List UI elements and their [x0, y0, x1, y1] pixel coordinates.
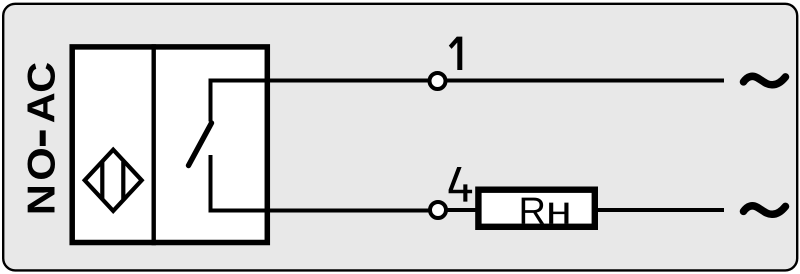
switch upper contact: [209, 79, 213, 122]
AC source symbol top: [744, 76, 786, 85]
wire resistor to AC: [598, 208, 724, 212]
wire top (switch to terminal 1): [211, 79, 433, 83]
resistor RH body: [478, 190, 594, 227]
proximity sensor symbol (diamond): [85, 150, 142, 211]
svg-text:AC: AC: [19, 62, 63, 124]
svg-text:R: R: [518, 191, 545, 233]
diamond inner line left: [100, 162, 104, 199]
pin label 4: [449, 167, 473, 202]
switch blade: [189, 123, 212, 166]
svg-text:н: н: [546, 189, 572, 233]
switch lower contact: [209, 155, 213, 211]
wire top right (terminal 1 to AC): [446, 79, 725, 83]
label NO-AC hyphen: [40, 130, 46, 146]
divider line: [151, 44, 155, 245]
wire bottom (switch to terminal 4): [209, 209, 433, 213]
diamond inner line right: [121, 162, 125, 199]
pin label 1: [449, 37, 463, 70]
terminal 4 circle: [430, 202, 446, 218]
wire terminal 4 to resistor: [446, 208, 478, 212]
terminal 1 circle: [430, 73, 446, 89]
AC source symbol bottom: [744, 206, 786, 215]
sensor body U1: [72, 47, 267, 243]
